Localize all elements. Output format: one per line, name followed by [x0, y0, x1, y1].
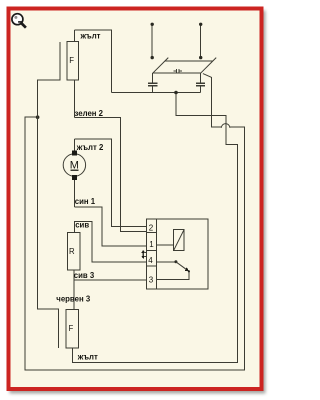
switch contact from cell 4: [157, 260, 190, 279]
wire: blue 1 branch to strip: [75, 207, 147, 246]
svg-text:сив: сив: [75, 221, 89, 230]
wire: motor bottom lead: [74, 180, 76, 207]
wire: top rail to right drop: [75, 30, 112, 93]
capacitor C2 right: [196, 73, 205, 92]
fuse F2 body: [66, 310, 79, 348]
junction node dot main rail: [174, 91, 178, 95]
svg-text:1: 1: [149, 240, 154, 249]
wire B: box corner to right drop with hop, bottom loop to left riser: [203, 74, 212, 78]
svg-text:червен 3: червен 3: [56, 294, 91, 303]
magnifier icon: [12, 14, 26, 28]
svg-text:2: 2: [149, 223, 154, 232]
lamp element with diagonal: [174, 229, 185, 250]
wire: resistor bottom down to fuse F2: [73, 270, 75, 310]
capacitor symbol inside box: [174, 69, 182, 73]
plug pin right: [199, 23, 202, 60]
thermal actuator symbol at cell 4: [141, 250, 146, 259]
terminal strip dividers: [146, 232, 156, 266]
svg-text:R: R: [69, 247, 75, 256]
junction node dot left: [36, 115, 40, 119]
wire: node up to stub beside fuse F1: [38, 42, 61, 117]
wire: yellow 2 branch to strip: [75, 139, 147, 226]
svg-text:F: F: [69, 56, 74, 65]
suppressor box (3D top): [153, 58, 217, 74]
svg-text:4: 4: [148, 256, 153, 265]
terminal strip body: [146, 219, 156, 289]
capacitor C1 left: [148, 73, 157, 92]
svg-text:F: F: [69, 324, 74, 333]
svg-text:жълт: жълт: [80, 32, 101, 41]
svg-text:син 1: син 1: [75, 197, 96, 206]
wire: cell 1 to lamp element: [157, 244, 174, 246]
controller box: [157, 219, 209, 289]
svg-text:зелен 2: зелен 2: [75, 109, 104, 118]
wire: fuse F2 bottom rail to right riser, wire A up to main node: [72, 93, 237, 363]
svg-text:M: M: [70, 159, 79, 171]
wire: node down, red wire to stub beside fuse F2: [38, 117, 59, 348]
plug pin left: [151, 23, 154, 60]
wire: grey 3 branch to strip cell 3: [74, 279, 146, 281]
motor M: [63, 150, 85, 179]
wire: main node rail to caps: [112, 92, 201, 94]
wire: grey branch from resistor top to strip cell 4: [75, 222, 147, 262]
wire: yellow 2 corner down to motor top: [74, 139, 76, 151]
svg-text:жълт: жълт: [77, 352, 98, 361]
svg-text:3: 3: [149, 276, 154, 285]
red frame with cream schematic background: [9, 9, 262, 390]
wire: fuse F1 down to green wire: [74, 80, 76, 118]
resistor R body: [68, 232, 80, 270]
wire: green 2 branch to strip: [75, 118, 147, 232]
fuse F1 top: wire up from fuse to top rail: [74, 30, 76, 41]
svg-text:жълт 2: жълт 2: [76, 143, 104, 152]
svg-text:сив 3: сив 3: [74, 271, 95, 280]
fuse F1 body: [67, 41, 79, 80]
